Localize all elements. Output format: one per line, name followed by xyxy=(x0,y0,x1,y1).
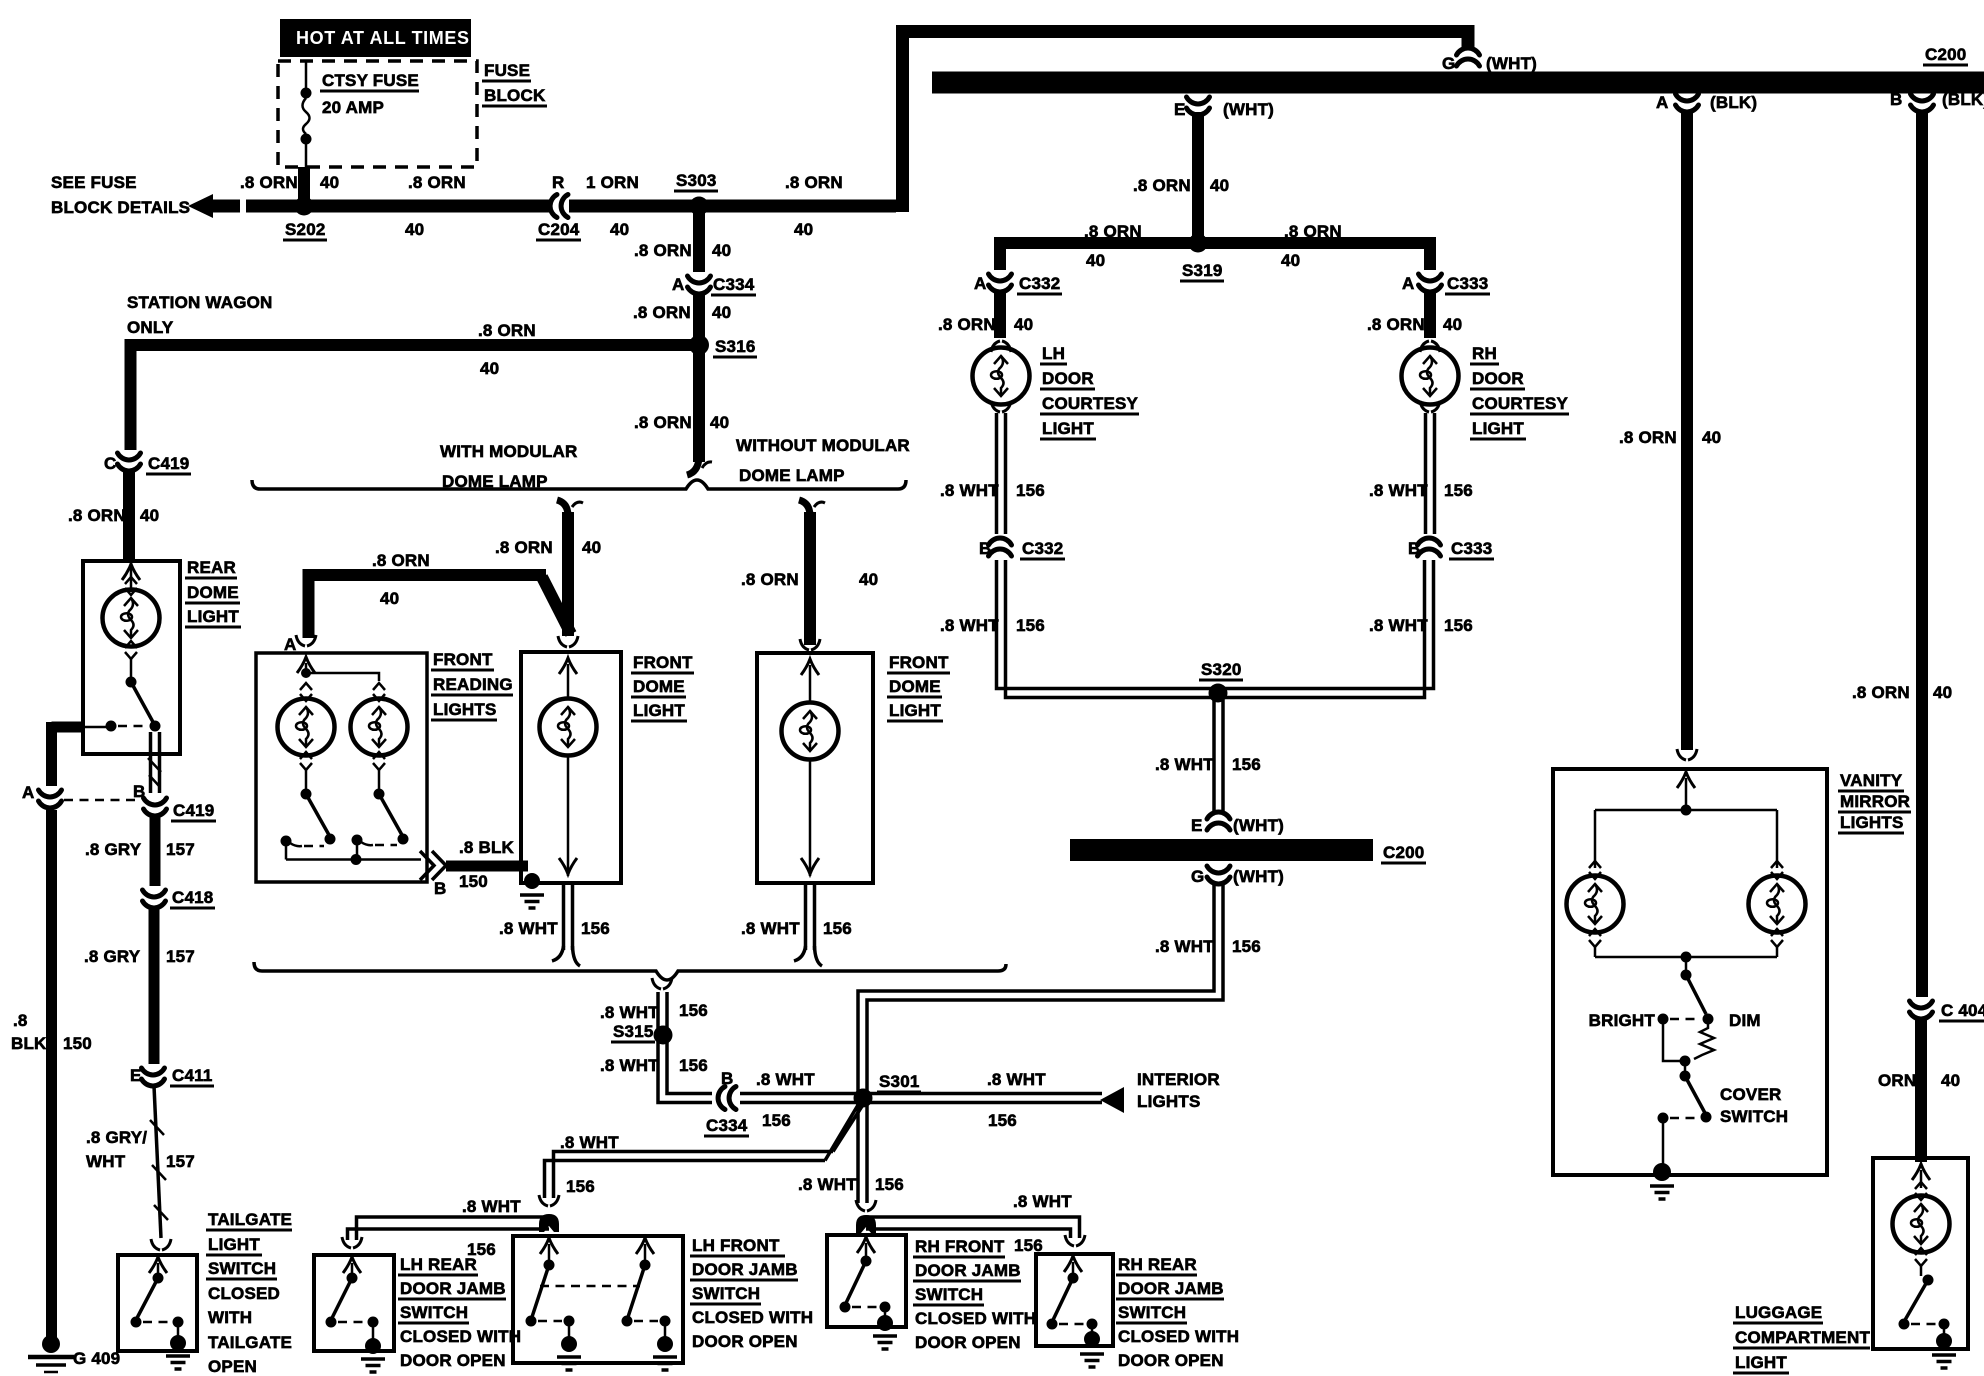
svg-text:40: 40 xyxy=(712,241,731,260)
svg-text:BLK: BLK xyxy=(11,1034,47,1053)
svg-text:G: G xyxy=(1191,867,1204,886)
svg-text:S316: S316 xyxy=(715,337,756,356)
svg-text:.8 ORN: .8 ORN xyxy=(785,173,843,192)
svg-text:.8 WHT: .8 WHT xyxy=(1369,616,1428,635)
connector C418 xyxy=(143,890,166,908)
wire white S301 to interior lights xyxy=(863,1092,1102,1096)
svg-text:LIGHT: LIGHT xyxy=(633,701,685,720)
svg-text:INTERIOR: INTERIOR xyxy=(1137,1070,1220,1089)
front dome light right box xyxy=(757,653,873,883)
wire below front dome left bulb xyxy=(567,754,570,876)
LH front door jamb switch box xyxy=(513,1236,683,1363)
svg-text:RH: RH xyxy=(1472,344,1497,363)
terminal arrow front reading xyxy=(297,657,315,673)
terminal Y LH front door jamb xyxy=(539,1195,559,1206)
svg-text:CLOSED WITH: CLOSED WITH xyxy=(1118,1327,1239,1346)
svg-text:WITH MODULAR: WITH MODULAR xyxy=(440,442,577,461)
svg-text:C419: C419 xyxy=(173,801,214,820)
node front reading junction xyxy=(301,668,311,678)
terminal arrow vanity feed xyxy=(1677,772,1695,788)
svg-text:COURTESY: COURTESY xyxy=(1472,394,1569,413)
terminal Y front dome left xyxy=(558,636,578,647)
splice S301 xyxy=(854,1089,873,1108)
svg-text:156: 156 xyxy=(1444,481,1473,500)
wire rear dome switch to box edge xyxy=(83,726,111,729)
svg-text:156: 156 xyxy=(1232,755,1261,774)
wire vanity bulbs to common node xyxy=(1595,946,1777,957)
ground G409 xyxy=(42,1335,60,1353)
svg-text:.8 WHT: .8 WHT xyxy=(560,1133,619,1152)
wire black rear dome to left column xyxy=(52,722,84,786)
svg-text:DOOR: DOOR xyxy=(1042,369,1094,388)
svg-text:B: B xyxy=(721,1069,733,1088)
arrow to fuse block details xyxy=(188,194,213,218)
switch LH front door jamb 1 xyxy=(540,1238,558,1254)
terminal Y above RH courtesy bulb xyxy=(1420,341,1440,352)
diamond above reading bulb 1 xyxy=(300,683,312,701)
wire white LH front to LH rear door jamb xyxy=(348,1217,550,1240)
svg-text:MIRROR: MIRROR xyxy=(1840,792,1910,811)
svg-text:OPEN: OPEN xyxy=(208,1357,257,1376)
svg-text:R: R xyxy=(552,173,564,192)
svg-text:.8 WHT: .8 WHT xyxy=(1155,937,1214,956)
svg-text:.8 ORN: .8 ORN xyxy=(1852,683,1910,702)
svg-text:40: 40 xyxy=(1941,1071,1960,1090)
svg-text:40: 40 xyxy=(1702,428,1721,447)
svg-text:WITHOUT MODULAR: WITHOUT MODULAR xyxy=(736,436,910,455)
svg-text:G: G xyxy=(1442,54,1455,73)
wire white S315 down to horizontal run xyxy=(658,1042,712,1103)
ground LH rear door jamb switch xyxy=(372,1327,375,1340)
svg-text:.8 ORN: .8 ORN xyxy=(495,538,553,557)
svg-text:156: 156 xyxy=(679,1056,708,1075)
svg-text:.8 WHT: .8 WHT xyxy=(1369,481,1428,500)
lamp luggage compartment light xyxy=(1893,1196,1950,1253)
svg-text:C334: C334 xyxy=(713,275,755,294)
splice S303 xyxy=(690,197,709,216)
svg-text:.8 GRY: .8 GRY xyxy=(84,947,141,966)
svg-text:157: 157 xyxy=(166,1152,195,1171)
lamp rear dome light bulb xyxy=(103,590,160,647)
diamond below reading bulb 2 xyxy=(373,752,385,770)
svg-text:.8: .8 xyxy=(13,1011,28,1030)
switch RH front door jamb xyxy=(857,1237,875,1253)
svg-text:VANITY: VANITY xyxy=(1840,771,1903,790)
svg-text:.8 WHT: .8 WHT xyxy=(756,1070,815,1089)
wire orange horizontal to front reading lights xyxy=(309,569,547,638)
arrow down inside front dome left xyxy=(559,858,577,874)
connector C333 terminal A xyxy=(1419,274,1442,292)
svg-text:S320: S320 xyxy=(1201,660,1242,679)
wire orange station wagon branch to C419 xyxy=(131,339,694,450)
connector C419 terminal A xyxy=(39,790,62,808)
svg-text:.8 WHT: .8 WHT xyxy=(1155,755,1214,774)
svg-text:.8 WHT: .8 WHT xyxy=(987,1070,1046,1089)
connector C332 terminal A xyxy=(989,274,1012,292)
svg-text:(BLK): (BLK) xyxy=(1710,93,1757,112)
svg-text:40: 40 xyxy=(380,589,399,608)
svg-text:.8 ORN: .8 ORN xyxy=(633,303,691,322)
svg-text:READING: READING xyxy=(433,675,513,694)
svg-text:.8 ORN: .8 ORN xyxy=(938,315,996,334)
RH rear door jamb switch box xyxy=(1036,1254,1113,1346)
fuse block dashed box xyxy=(278,61,477,167)
svg-text:C: C xyxy=(104,454,116,473)
lamp front dome light left xyxy=(540,699,597,756)
svg-text:C419: C419 xyxy=(148,454,189,473)
terminal Y above LH courtesy bulb xyxy=(991,341,1011,352)
wire vanity branch horizontals xyxy=(1595,810,1777,868)
svg-text:156: 156 xyxy=(1232,937,1261,956)
switch RH rear door jamb xyxy=(1064,1256,1082,1272)
svg-text:150: 150 xyxy=(63,1034,92,1053)
svg-text:LIGHT: LIGHT xyxy=(208,1235,260,1254)
svg-text:156: 156 xyxy=(762,1111,791,1130)
svg-text:DOME: DOME xyxy=(889,677,941,696)
wire gray-white C411 to tailgate switch xyxy=(154,1086,161,1238)
connector C200 mid terminal G (WHT) xyxy=(1207,866,1230,884)
svg-text:40: 40 xyxy=(1443,315,1462,334)
dashed link C419 A to B xyxy=(64,799,140,802)
svg-text:LH REAR: LH REAR xyxy=(400,1255,477,1274)
svg-text:.8 WHT: .8 WHT xyxy=(499,919,558,938)
svg-text:DOOR JAMB: DOOR JAMB xyxy=(692,1260,798,1279)
svg-text:G 409: G 409 xyxy=(73,1349,120,1368)
ground luggage compartment light xyxy=(1943,1329,1946,1336)
svg-text:HOT AT ALL TIMES: HOT AT ALL TIMES xyxy=(296,28,470,48)
terminal cap LH front door jamb xyxy=(539,1214,559,1232)
svg-text:C411: C411 xyxy=(172,1066,213,1085)
connector C334 terminal A xyxy=(688,276,711,294)
svg-text:40: 40 xyxy=(712,303,731,322)
terminal cap RH front door jamb xyxy=(856,1215,876,1233)
svg-text:B: B xyxy=(434,879,446,898)
bus C200 top xyxy=(932,72,1984,94)
svg-text:.8 ORN: .8 ORN xyxy=(1367,315,1425,334)
svg-text:BRIGHT: BRIGHT xyxy=(1589,1011,1656,1030)
svg-text:.8 WHT: .8 WHT xyxy=(1013,1192,1072,1211)
diamond above luggage bulb xyxy=(1915,1182,1927,1200)
svg-text:C333: C333 xyxy=(1451,539,1492,558)
svg-text:COURTESY: COURTESY xyxy=(1042,394,1139,413)
svg-text:.8 ORN: .8 ORN xyxy=(478,321,536,340)
ground RH front door jamb switch xyxy=(884,1312,887,1318)
wire main orange feed bus xyxy=(246,200,896,213)
wire orange C334 to S316 xyxy=(693,294,705,345)
connector C404 xyxy=(1910,1001,1933,1019)
svg-text:157: 157 xyxy=(166,840,195,859)
wire white S301 diagonal to LH run xyxy=(825,1100,866,1161)
brace bottom dome lamp merge xyxy=(254,962,1006,980)
ground tailgate switch xyxy=(177,1327,180,1338)
diamond above vanity bulb right xyxy=(1771,861,1783,879)
wire bus up and over to C200 xyxy=(903,32,1469,213)
wire black reading lights to ground xyxy=(446,861,528,872)
svg-text:DOME: DOME xyxy=(633,677,685,696)
switch reading light 2 xyxy=(378,770,381,789)
connector C419 terminal C xyxy=(118,453,141,471)
LH rear door jamb switch box xyxy=(314,1255,394,1351)
wire white C333-B down to S320 xyxy=(1223,560,1434,698)
svg-text:LIGHTS: LIGHTS xyxy=(1137,1092,1201,1111)
ground front reading lights xyxy=(524,873,540,889)
svg-text:40: 40 xyxy=(405,220,424,239)
svg-text:A: A xyxy=(1402,274,1414,293)
svg-text:LIGHT: LIGHT xyxy=(1042,419,1094,438)
svg-text:156: 156 xyxy=(679,1001,708,1020)
svg-text:B: B xyxy=(1408,539,1420,558)
RH front door jamb switch box xyxy=(827,1235,906,1327)
wire below front dome right bulb xyxy=(809,758,812,876)
wire fuse output drop to bus xyxy=(298,167,310,200)
svg-text:E: E xyxy=(1191,816,1203,835)
svg-text:FRONT: FRONT xyxy=(889,653,949,672)
svg-text:LIGHT: LIGHT xyxy=(1472,419,1524,438)
svg-text:.8 GRY/: .8 GRY/ xyxy=(86,1128,147,1147)
wire white RH bulb to C333-B xyxy=(1424,413,1428,534)
lamp front dome light right xyxy=(782,703,839,760)
wire orange from E to S319 xyxy=(1192,112,1204,240)
svg-text:LH FRONT: LH FRONT xyxy=(692,1236,780,1255)
wire white G down then left to S301 xyxy=(858,884,1214,1098)
vanity mirror lights box xyxy=(1553,769,1827,1175)
hot-at-all-times box xyxy=(280,19,471,57)
connector C200 terminal A (BLK) xyxy=(1676,94,1699,112)
wire orange B-BLK down to C404 xyxy=(1916,112,1928,997)
svg-text:.8 WHT: .8 WHT xyxy=(462,1197,521,1216)
terminal arrow front dome right xyxy=(801,659,819,675)
svg-text:(WHT): (WHT) xyxy=(1223,100,1274,119)
arrow down inside front dome right xyxy=(801,858,819,874)
svg-text:.8 BLK: .8 BLK xyxy=(459,838,515,857)
svg-text:DOME: DOME xyxy=(187,583,239,602)
switch reading light 1 xyxy=(305,770,308,789)
svg-text:.8 WHT: .8 WHT xyxy=(741,919,800,938)
dashed link between LH front switches xyxy=(540,1285,640,1288)
svg-text:COMPARTMENT: COMPARTMENT xyxy=(1735,1328,1870,1347)
svg-text:C332: C332 xyxy=(1022,539,1063,558)
splice S316 xyxy=(689,335,709,355)
wire orange C333-A to RH bulb xyxy=(1424,292,1436,338)
svg-text:20 AMP: 20 AMP xyxy=(322,98,384,117)
wire orange S303 down to C334 xyxy=(693,212,705,272)
switch luggage compartment xyxy=(1920,1265,1923,1276)
wire bright contact loop xyxy=(1663,1024,1680,1061)
wire white S301 down to RH front door jamb switch xyxy=(856,1105,860,1203)
connector C334 terminal B xyxy=(718,1087,736,1110)
front dome light left box xyxy=(521,652,621,883)
svg-text:157: 157 xyxy=(166,947,195,966)
wire orange diagonal into front dome light xyxy=(542,577,571,634)
svg-text:DOOR JAMB: DOOR JAMB xyxy=(915,1261,1021,1280)
svg-text:40: 40 xyxy=(1281,251,1300,270)
splice S315 xyxy=(654,1026,673,1045)
svg-text:REAR: REAR xyxy=(187,558,236,577)
wire white rear dome switch to C419-B xyxy=(149,732,153,793)
svg-text:40: 40 xyxy=(794,220,813,239)
svg-text:C204: C204 xyxy=(538,220,580,239)
wire white brace to S315 xyxy=(656,992,660,1028)
wire orange S316 down to brace xyxy=(693,351,705,462)
svg-text:E: E xyxy=(130,1066,142,1085)
wire white S320 down to C200 E xyxy=(1212,700,1216,812)
svg-text:40: 40 xyxy=(710,413,729,432)
terminal arrow rear dome feed xyxy=(130,561,133,592)
connector C204 inline xyxy=(550,195,568,218)
node vanity top junction xyxy=(1681,805,1692,816)
svg-text:CLOSED WITH: CLOSED WITH xyxy=(692,1308,813,1327)
svg-text:SWITCH: SWITCH xyxy=(400,1303,468,1322)
svg-text:LIGHTS: LIGHTS xyxy=(1840,813,1904,832)
svg-text:TAILGATE: TAILGATE xyxy=(208,1210,292,1229)
svg-text:SWITCH: SWITCH xyxy=(1720,1107,1788,1126)
splice S319 xyxy=(1189,234,1208,253)
svg-text:S319: S319 xyxy=(1182,261,1223,280)
switch vanity cover xyxy=(1684,1061,1687,1071)
terminal arrow luggage light xyxy=(1912,1164,1930,1180)
luggage compartment light box xyxy=(1873,1158,1968,1349)
node vanity bulbs common xyxy=(1681,952,1692,963)
svg-text:S301: S301 xyxy=(879,1072,920,1091)
wire white C334-B to S301 xyxy=(740,1092,863,1096)
rear dome light box xyxy=(83,561,180,754)
hook top of with-modular branch xyxy=(557,500,568,516)
svg-text:40: 40 xyxy=(1210,176,1229,195)
svg-text:SWITCH: SWITCH xyxy=(208,1259,276,1278)
svg-text:40: 40 xyxy=(859,570,878,589)
svg-text:S202: S202 xyxy=(285,220,326,239)
switch LH front door jamb 2 xyxy=(636,1238,654,1254)
terminal Y below RH courtesy bulb xyxy=(1420,401,1440,412)
svg-text:(WHT): (WHT) xyxy=(1233,816,1284,835)
svg-text:156: 156 xyxy=(988,1111,1017,1130)
terminal B half arrows reading lights xyxy=(420,851,434,880)
wire orange A-BLK down to vanity xyxy=(1681,112,1693,750)
connector C200 terminal B (BLK) xyxy=(1911,94,1934,112)
terminal Y RH rear door jamb xyxy=(1065,1235,1085,1246)
svg-text:DOME LAMP: DOME LAMP xyxy=(739,466,845,485)
lamp LH door courtesy light xyxy=(973,348,1030,405)
wire S319 horizontal to C332 and C333 xyxy=(994,243,1436,270)
connector C333 terminal B xyxy=(1418,538,1441,556)
svg-text:RH FRONT: RH FRONT xyxy=(915,1237,1005,1256)
svg-text:DOOR JAMB: DOOR JAMB xyxy=(400,1279,506,1298)
svg-text:C200: C200 xyxy=(1925,45,1966,64)
svg-text:WITH: WITH xyxy=(208,1308,252,1327)
switch LH rear door jamb xyxy=(343,1257,361,1273)
svg-text:DOOR OPEN: DOOR OPEN xyxy=(692,1332,798,1351)
svg-text:ONLY: ONLY xyxy=(127,318,174,337)
splice S202 xyxy=(295,197,314,216)
svg-text:FRONT: FRONT xyxy=(433,650,493,669)
diamond below rear dome bulb xyxy=(125,641,137,659)
bus C200 mid xyxy=(1070,839,1373,861)
svg-text:BLOCK DETAILS: BLOCK DETAILS xyxy=(51,198,190,217)
wire white RH front to RH rear door jamb xyxy=(866,1217,1080,1238)
svg-text:40: 40 xyxy=(320,173,339,192)
svg-text:B: B xyxy=(979,539,991,558)
svg-text:A: A xyxy=(284,635,296,654)
svg-text:SWITCH: SWITCH xyxy=(1118,1303,1186,1322)
diamond above rear dome bulb xyxy=(125,577,137,595)
svg-text:.8 ORN: .8 ORN xyxy=(1084,222,1142,241)
svg-text:.8 ORN: .8 ORN xyxy=(372,551,430,570)
svg-text:DOOR JAMB: DOOR JAMB xyxy=(1118,1279,1224,1298)
svg-text:E: E xyxy=(1174,100,1186,119)
svg-text:RH REAR: RH REAR xyxy=(1118,1255,1197,1274)
svg-text:DOOR OPEN: DOOR OPEN xyxy=(915,1333,1021,1352)
svg-text:(WHT): (WHT) xyxy=(1486,54,1537,73)
svg-text:S315: S315 xyxy=(613,1022,654,1041)
svg-text:156: 156 xyxy=(1444,616,1473,635)
node vanity dimmer output xyxy=(1680,1056,1691,1067)
connector C332 terminal B xyxy=(989,538,1012,556)
svg-text:SWITCH: SWITCH xyxy=(692,1284,760,1303)
wire black left column to ground xyxy=(46,810,57,1338)
svg-text:40: 40 xyxy=(582,538,601,557)
ground LH front door jamb switch 1 xyxy=(568,1326,571,1338)
hook top of without-modular branch xyxy=(799,500,810,516)
diamond below reading bulb 1 xyxy=(300,752,312,770)
svg-text:C200: C200 xyxy=(1383,843,1424,862)
brace top modular dome lamp split xyxy=(252,480,906,489)
svg-text:156: 156 xyxy=(1016,616,1045,635)
diamond above vanity bulb left xyxy=(1589,861,1601,879)
diamond above reading bulb 2 xyxy=(373,683,385,701)
ground vanity mirror lights xyxy=(1662,1123,1665,1168)
switch vanity bright-dim xyxy=(1685,957,1688,970)
svg-text:DIM: DIM xyxy=(1729,1011,1761,1030)
terminal Y RH front door jamb xyxy=(856,1200,876,1211)
hook bottom of front dome left wire xyxy=(552,946,564,961)
svg-text:SEE FUSE: SEE FUSE xyxy=(51,173,137,192)
svg-text:40: 40 xyxy=(1014,315,1033,334)
diamond below vanity bulb left xyxy=(1589,929,1601,947)
svg-text:FRONT: FRONT xyxy=(633,653,693,672)
splice S320 xyxy=(1209,684,1228,703)
terminal Y vanity mirror feed xyxy=(1677,749,1697,760)
switch tailgate xyxy=(149,1257,167,1273)
connector C200 mid terminal E (WHT) xyxy=(1207,812,1230,830)
svg-text:C 404: C 404 xyxy=(1941,1001,1984,1020)
svg-text:.8 WHT: .8 WHT xyxy=(940,616,999,635)
wire white C332-B down to S320 xyxy=(997,560,1215,689)
svg-text:(BLK): (BLK) xyxy=(1942,90,1984,109)
svg-text:.8 ORN: .8 ORN xyxy=(634,413,692,432)
svg-text:156: 156 xyxy=(581,919,610,938)
front reading lights box xyxy=(256,653,427,882)
svg-text:.8 WHT: .8 WHT xyxy=(600,1056,659,1075)
wire white long run to LH front door jamb switch xyxy=(545,1152,834,1199)
terminal Y below brace to S315 xyxy=(652,978,672,989)
svg-text:150: 150 xyxy=(459,872,488,891)
svg-text:B: B xyxy=(133,782,145,801)
svg-text:C418: C418 xyxy=(172,888,213,907)
terminal Y LH rear door jamb xyxy=(342,1237,362,1248)
diamond below luggage bulb xyxy=(1915,1248,1927,1266)
svg-text:LIGHTS: LIGHTS xyxy=(433,700,497,719)
svg-text:C332: C332 xyxy=(1019,274,1060,293)
diamond below vanity bulb right xyxy=(1771,929,1783,947)
svg-text:LIGHT: LIGHT xyxy=(1735,1353,1787,1372)
svg-text:1 ORN: 1 ORN xyxy=(586,173,639,192)
svg-text:.8 ORN: .8 ORN xyxy=(1619,428,1677,447)
hook bottom of front dome right wire xyxy=(794,946,806,961)
svg-text:LIGHT: LIGHT xyxy=(889,701,941,720)
svg-text:.8 ORN: .8 ORN xyxy=(240,173,298,192)
fuse F ctsy-fuse symbol xyxy=(305,61,308,88)
svg-text:CLOSED: CLOSED xyxy=(208,1284,280,1303)
